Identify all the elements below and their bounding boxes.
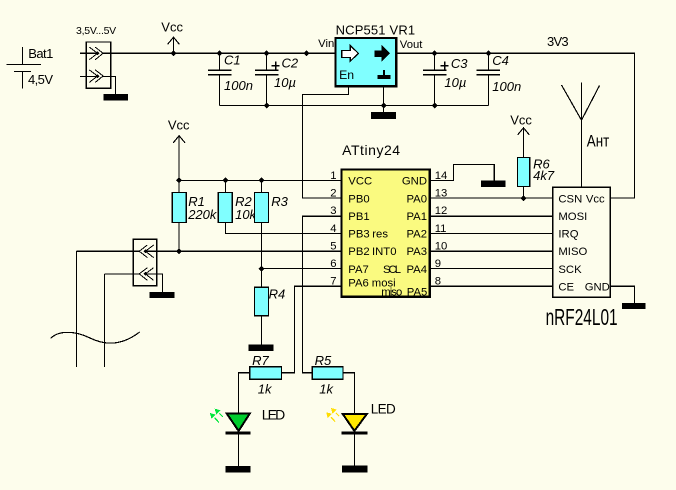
- wire cable lead 1: [76, 251, 78, 367]
- svg-text:IRQ: IRQ: [558, 229, 578, 241]
- wire R7 to green LED: [239, 373, 250, 414]
- ground (X2): [150, 292, 175, 298]
- svg-text:PB1: PB1: [348, 211, 369, 223]
- svg-text:Vin: Vin: [318, 38, 334, 50]
- ATtiny24 right pin labels: [381, 176, 427, 299]
- svg-text:LED: LED: [371, 401, 396, 416]
- wire R5 to yellow LED: [343, 373, 354, 414]
- connector X2 pin 2 chevrons: [139, 268, 153, 281]
- svg-text:En: En: [339, 68, 354, 82]
- svg-text:LED: LED: [262, 406, 286, 422]
- module nRF24L01: [553, 187, 611, 297]
- svg-text:5: 5: [330, 240, 336, 252]
- wire rail to ATtiny pin1: [179, 179, 341, 181]
- resistor R6: [518, 156, 555, 198]
- wire pin13 to CSN: [430, 197, 553, 199]
- node (R1 bottom): [176, 248, 182, 254]
- svg-text:Vcc: Vcc: [510, 113, 532, 128]
- svg-text:Ант: Ант: [587, 132, 610, 151]
- resistor R5: [312, 353, 343, 396]
- svg-text:PA7: PA7: [348, 264, 369, 276]
- svg-text:Vcc: Vcc: [161, 19, 183, 34]
- resistor R7: [250, 353, 282, 396]
- ground (regulator): [371, 112, 396, 119]
- svg-text:Vcc: Vcc: [586, 193, 605, 205]
- regulator VR1 NCP551: [318, 23, 423, 87]
- wire pin10 to MISO: [430, 250, 553, 252]
- connector X1 pin 1 chevrons: [80, 47, 111, 60]
- capacitor C3: [423, 53, 468, 105]
- node (reg gnd at rail): [381, 103, 387, 109]
- wire bottom rail: [220, 105, 489, 107]
- svg-text:PA2: PA2: [406, 229, 427, 241]
- node (R3 top): [259, 177, 265, 183]
- svg-text:PA4: PA4: [406, 264, 427, 276]
- node (rail junction): [304, 50, 310, 56]
- svg-text:PB3: PB3: [348, 229, 369, 241]
- node (R2 top): [223, 177, 229, 183]
- LED D2 emission arrows: [326, 408, 339, 422]
- resistor R1: [172, 180, 218, 251]
- svg-text:4,5V: 4,5V: [28, 72, 53, 87]
- resistor R3: [255, 180, 289, 287]
- wire pin7 to R7: [282, 286, 342, 373]
- svg-text:3: 3: [330, 205, 336, 217]
- battery Bat1: [6, 46, 53, 89]
- wire pin8 to CE: [430, 285, 553, 287]
- svg-text:R4: R4: [269, 286, 286, 301]
- svg-text:CSN: CSN: [558, 193, 582, 205]
- svg-text:10µ: 10µ: [444, 75, 466, 90]
- svg-text:MOSI: MOSI: [558, 211, 587, 223]
- node (Vcc top rail): [171, 50, 177, 56]
- svg-text:6: 6: [330, 258, 336, 270]
- connector X2 pin 1 chevrons: [139, 245, 153, 258]
- svg-text:12: 12: [435, 205, 448, 217]
- LED D1 emission arrows: [210, 409, 223, 423]
- node (C4 top): [486, 50, 492, 56]
- wire nRF GND to ground: [610, 286, 634, 303]
- wire regulator output 3V3 rail: [396, 53, 634, 198]
- svg-text:220k: 220k: [187, 207, 218, 222]
- wire X2 pin2 to ground: [145, 274, 162, 292]
- wire pin5 row: [77, 250, 342, 252]
- svg-text:PA5: PA5: [407, 286, 428, 298]
- wire pin3 to R5: [303, 216, 342, 373]
- svg-text:CE: CE: [558, 281, 574, 293]
- svg-text:res: res: [372, 229, 388, 241]
- svg-text:PA3: PA3: [406, 246, 427, 258]
- svg-text:Vout: Vout: [400, 39, 423, 51]
- Vcc symbol (top): [161, 19, 183, 53]
- ground (R4): [249, 344, 274, 351]
- node (C3 top): [432, 50, 438, 56]
- wire pin14 to ground: [430, 164, 495, 180]
- svg-text:C1: C1: [224, 53, 241, 68]
- wire top rail Vcc: [111, 52, 336, 54]
- Vcc symbol (R6): [510, 113, 532, 158]
- ground (X1): [104, 94, 128, 101]
- svg-text:1k: 1k: [319, 381, 334, 396]
- connector X2: [133, 239, 156, 286]
- svg-text:4k7: 4k7: [533, 168, 555, 183]
- resistor R4: [255, 286, 286, 344]
- node (C2 bottom): [264, 103, 270, 109]
- svg-text:PA1: PA1: [406, 211, 427, 223]
- node (R3-R4 junction): [259, 266, 265, 272]
- LED D1 (green): [226, 406, 286, 466]
- ATtiny24 left pin labels: [348, 176, 396, 290]
- connector X1 pin 2 chevrons: [80, 70, 111, 83]
- node (C3 bottom): [432, 103, 438, 109]
- wire cable lead 2: [105, 274, 140, 367]
- wire pin11 to IRQ: [430, 232, 553, 234]
- svg-text:VCC: VCC: [348, 176, 372, 188]
- ground (pin14): [481, 181, 506, 187]
- svg-text:3V3: 3V3: [547, 34, 569, 49]
- node (Vcc rail left): [176, 177, 182, 183]
- svg-text:C4: C4: [492, 53, 509, 68]
- capacitor C4: [476, 53, 521, 105]
- node (C2 top): [264, 50, 270, 56]
- ground (nRF): [622, 303, 646, 309]
- svg-text:INT0: INT0: [372, 246, 396, 258]
- Vcc symbol (middle left): [168, 117, 190, 180]
- svg-text:C3: C3: [451, 56, 468, 71]
- svg-text:1: 1: [330, 170, 336, 182]
- capacitor C2: [255, 53, 299, 105]
- node (C1 top): [217, 50, 223, 56]
- LED D2 (yellow): [342, 401, 396, 465]
- svg-text:PA6: PA6: [348, 277, 369, 289]
- svg-text:MISO: MISO: [558, 246, 587, 258]
- svg-text:Vcc: Vcc: [168, 117, 190, 132]
- svg-text:SCK: SCK: [558, 264, 582, 276]
- cable squiggle: [51, 332, 140, 343]
- svg-text:miso: miso: [381, 286, 402, 298]
- svg-text:2: 2: [330, 188, 336, 200]
- svg-text:PB0: PB0: [348, 193, 369, 205]
- svg-text:100n: 100n: [224, 78, 253, 93]
- svg-text:ATtiny24: ATtiny24: [342, 142, 400, 158]
- wire regulator gnd stem: [383, 86, 385, 112]
- svg-text:NCP551 VR1: NCP551 VR1: [336, 23, 416, 38]
- svg-text:4: 4: [330, 223, 336, 235]
- connector X1 (3,5V...5V input): [76, 25, 116, 88]
- svg-text:C2: C2: [282, 56, 299, 71]
- wire pin6 row: [262, 268, 342, 270]
- ground (yellow LED): [342, 465, 368, 472]
- svg-text:100n: 100n: [492, 79, 521, 94]
- svg-text:R7: R7: [252, 353, 269, 368]
- svg-text:R5: R5: [315, 353, 332, 368]
- capacitor C1: [208, 53, 253, 106]
- svg-text:10µ: 10µ: [274, 75, 296, 90]
- svg-text:R3: R3: [271, 194, 288, 209]
- svg-text:nRF24L01: nRF24L01: [546, 304, 618, 330]
- svg-text:3,5V...5V: 3,5V...5V: [76, 25, 116, 37]
- IC U1 ATtiny24: [342, 142, 430, 297]
- wire X1 pin2 to ground: [111, 76, 116, 94]
- svg-text:PB2: PB2: [348, 246, 369, 258]
- ATtiny24 left pin numbers: [330, 170, 336, 288]
- svg-text:GND: GND: [402, 176, 427, 188]
- svg-text:SCL: SCL: [383, 264, 401, 276]
- ground (green LED): [226, 466, 251, 473]
- resistor R2: [218, 180, 341, 233]
- ATtiny24 right pin numbers: [435, 170, 448, 288]
- svg-text:GND: GND: [585, 281, 610, 293]
- node (R6 bottom): [521, 195, 527, 201]
- antenna: [562, 83, 610, 188]
- svg-text:PA0: PA0: [406, 193, 427, 205]
- svg-text:1k: 1k: [258, 381, 273, 396]
- wire pin12 to MOSI: [430, 215, 553, 217]
- wire En to PB0: [303, 86, 349, 198]
- svg-text:Bat1: Bat1: [28, 46, 53, 61]
- wire pin9 to SCK: [430, 268, 553, 270]
